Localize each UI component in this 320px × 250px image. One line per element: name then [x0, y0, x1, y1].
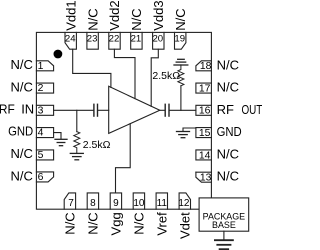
pin 7	[64, 193, 75, 209]
svg-text:2: 2	[38, 83, 44, 94]
capacitor C2	[165, 104, 169, 116]
pin 15	[196, 128, 212, 139]
pin 4	[36, 128, 53, 139]
svg-text:6: 6	[38, 172, 44, 183]
wire amp output to C2	[160, 109, 165, 111]
capacitor C1	[94, 104, 98, 116]
pin 11	[156, 193, 167, 209]
svg-text:20: 20	[152, 34, 163, 45]
svg-text:18: 18	[200, 61, 212, 72]
svg-text:2.5kΩ: 2.5kΩ	[83, 139, 111, 151]
ground at pin 15	[177, 132, 190, 138]
resistor R2	[178, 65, 184, 86]
wire C1 to amp input	[98, 109, 109, 111]
svg-text:21: 21	[131, 34, 142, 45]
svg-text:Vref: Vref	[155, 212, 170, 236]
svg-text:N/C: N/C	[86, 212, 101, 234]
svg-text:4: 4	[38, 128, 44, 139]
wire pin15 GND to ground	[183, 128, 196, 131]
svg-text:BASE: BASE	[212, 220, 236, 230]
svg-text:1: 1	[38, 61, 44, 72]
wire package base to ground	[223, 231, 225, 240]
pin 13	[196, 172, 212, 183]
pin 8	[87, 193, 98, 209]
svg-text:N/C: N/C	[11, 79, 33, 94]
svg-text:19: 19	[174, 34, 185, 45]
svg-text:14: 14	[199, 150, 211, 161]
svg-text:N/C: N/C	[217, 146, 239, 161]
svg-text:11: 11	[157, 198, 168, 209]
wire C2 to RF OUT pin16	[170, 109, 196, 111]
svg-text:N/C: N/C	[129, 8, 144, 30]
pin 2	[36, 83, 53, 94]
svg-text:10: 10	[133, 198, 145, 209]
pin 18	[196, 61, 212, 72]
wire pin4 GND to ground	[54, 133, 61, 139]
svg-text:Vdd1: Vdd1	[63, 0, 78, 30]
svg-text:8: 8	[90, 198, 96, 209]
wire Vdd2 pin22 to amp	[114, 49, 135, 98]
svg-text:N/C: N/C	[63, 212, 78, 234]
svg-text:22: 22	[109, 34, 120, 45]
svg-text:Vdet: Vdet	[178, 212, 193, 239]
svg-text:2.5kΩ: 2.5kΩ	[152, 70, 180, 82]
ground above R2	[174, 59, 188, 65]
svg-text:N/C: N/C	[11, 146, 33, 161]
svg-text:9: 9	[113, 198, 119, 209]
svg-text:Vdd2: Vdd2	[107, 0, 122, 30]
wire Vdd3 pin20 to amp	[151, 49, 158, 106]
pin 5	[36, 150, 53, 161]
svg-text:RF: RF	[0, 102, 15, 117]
pin 22	[109, 32, 121, 49]
pin 24	[65, 32, 77, 49]
pin 17	[196, 83, 212, 94]
pin 12	[178, 193, 190, 209]
svg-text:N/C: N/C	[11, 57, 33, 72]
pin 9	[110, 193, 121, 209]
svg-text:N/C: N/C	[217, 169, 239, 184]
pin 1 indicator dot	[54, 50, 63, 59]
svg-text:N/C: N/C	[173, 8, 188, 30]
svg-text:16: 16	[199, 106, 211, 117]
svg-text:IN: IN	[21, 101, 34, 116]
svg-text:3: 3	[38, 105, 44, 116]
svg-text:GND: GND	[217, 124, 242, 139]
svg-text:24: 24	[65, 34, 76, 45]
ground below R1	[70, 153, 83, 159]
svg-text:N/C: N/C	[217, 57, 239, 72]
svg-text:N/C: N/C	[85, 8, 100, 30]
svg-text:Vdd3: Vdd3	[151, 0, 166, 30]
svg-text:12: 12	[178, 198, 190, 209]
svg-text:7: 7	[68, 198, 74, 209]
svg-text:23: 23	[87, 34, 98, 45]
svg-text:17: 17	[199, 84, 211, 95]
ground below package base	[215, 240, 233, 249]
pin 20	[152, 32, 164, 49]
pin 1	[36, 61, 53, 72]
svg-text:Vgg: Vgg	[109, 212, 124, 235]
wire Vdd1 pin24 to amp	[73, 49, 111, 87]
pin 21	[131, 32, 143, 49]
wire input node to R1	[76, 110, 78, 131]
svg-text:N/C: N/C	[217, 80, 239, 95]
pin 19	[174, 32, 186, 49]
svg-text:GND: GND	[8, 124, 33, 139]
svg-text:N/C: N/C	[132, 212, 147, 234]
svg-text:N/C: N/C	[11, 168, 33, 183]
pin 10	[133, 193, 145, 209]
svg-text:RF: RF	[217, 102, 234, 117]
svg-text:13: 13	[200, 173, 212, 184]
svg-text:15: 15	[199, 128, 211, 139]
svg-text:OUT: OUT	[242, 104, 263, 118]
package base box	[199, 198, 249, 231]
wire Vgg pin9 to amp	[116, 124, 131, 193]
pin 3	[36, 105, 53, 116]
ground at pin 4	[55, 139, 67, 145]
resistor R1	[74, 132, 80, 153]
svg-text:5: 5	[38, 150, 44, 161]
pin 6	[36, 172, 53, 183]
pin 16	[196, 105, 212, 116]
pin 14	[196, 150, 212, 161]
package outline	[36, 32, 211, 209]
wire RF IN pin3 to C1	[54, 109, 94, 111]
wire output node to R2	[180, 86, 182, 111]
pin 23	[87, 32, 99, 49]
op-amp U1	[109, 86, 160, 133]
